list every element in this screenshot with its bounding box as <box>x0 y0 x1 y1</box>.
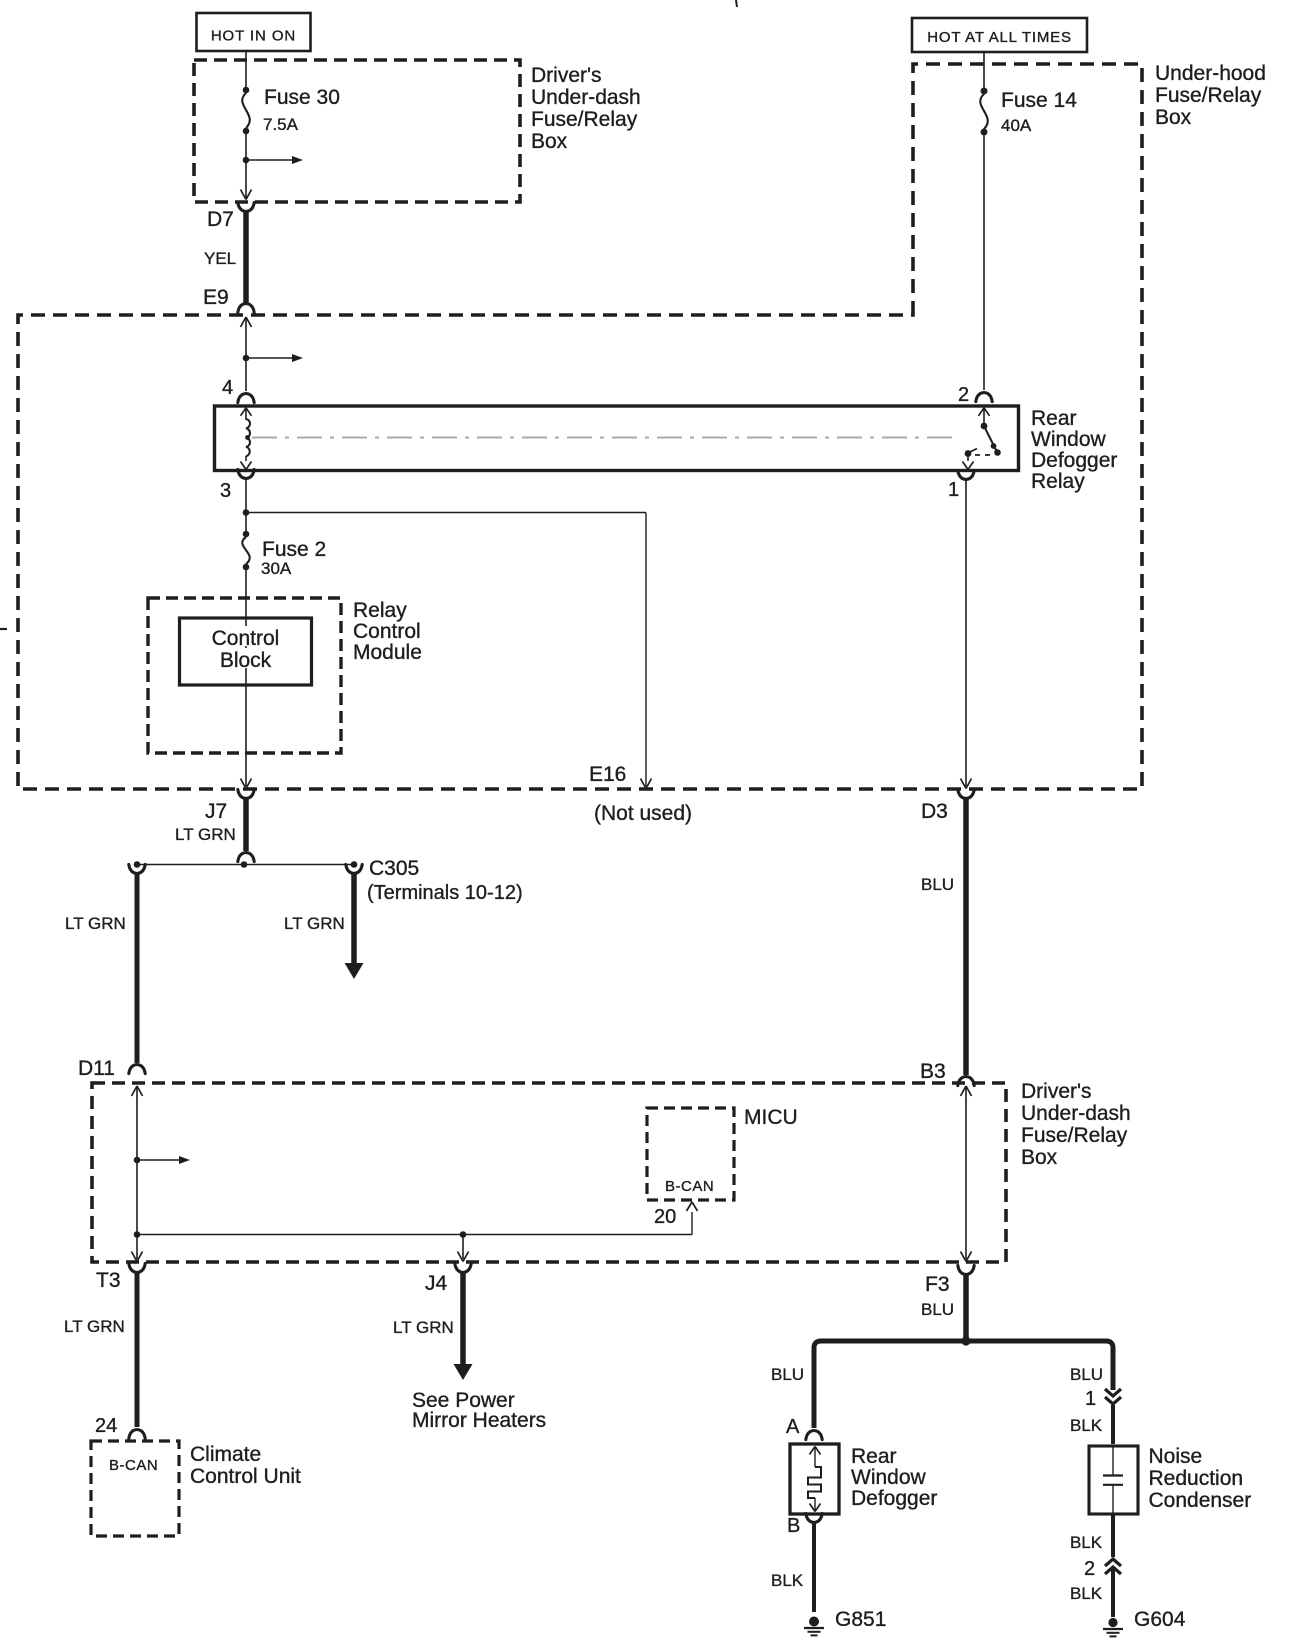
wire to E16 (not used) <box>246 513 646 787</box>
label LT GRN (left branch) <box>65 914 126 933</box>
label C305 <box>369 857 419 880</box>
label (Not used) <box>594 802 692 825</box>
scan tick left <box>0 628 7 630</box>
svg-text:Under-dash: Under-dash <box>531 86 641 109</box>
module box: Climate Control Unit (dashed) <box>91 1441 179 1536</box>
svg-text:HOT IN ON: HOT IN ON <box>211 28 296 45</box>
label Rear Window Defogger Relay <box>1031 407 1117 493</box>
svg-text:1: 1 <box>1085 1388 1096 1410</box>
label See Power Mirror Heaters <box>412 1389 546 1432</box>
label pin 2 <box>958 384 969 406</box>
connector J7 <box>238 789 254 798</box>
label B3 <box>920 1060 946 1083</box>
svg-text:30A: 30A <box>261 559 292 578</box>
svg-text:Defogger: Defogger <box>1031 449 1117 472</box>
node splice right <box>351 861 358 868</box>
relay dash-dot divider <box>245 435 958 440</box>
svg-text:BLK: BLK <box>771 1571 804 1590</box>
svg-text:HOT AT ALL TIMES: HOT AT ALL TIMES <box>927 29 1072 46</box>
label pin 1 (relay) <box>948 479 959 501</box>
label LT GRN (J4) <box>393 1318 454 1337</box>
label F3 <box>925 1273 950 1296</box>
wire E9 to relay pin 4 <box>245 317 247 391</box>
arrow relay pin 4 internal <box>241 408 252 420</box>
node junction at F3 drop <box>961 1336 970 1345</box>
relay switch common contact <box>981 423 988 430</box>
svg-text:YEL: YEL <box>204 249 236 268</box>
svg-text:Mirror Heaters: Mirror Heaters <box>412 1409 546 1432</box>
svg-text:Fuse/Relay: Fuse/Relay <box>1021 1124 1128 1147</box>
svg-text:B-CAN: B-CAN <box>109 1457 158 1474</box>
splice line below J7 <box>137 864 354 866</box>
svg-text:(Not used): (Not used) <box>594 802 692 825</box>
svg-text:LT GRN: LT GRN <box>393 1318 454 1337</box>
svg-text:D3: D3 <box>921 800 948 823</box>
svg-text:40A: 40A <box>1001 116 1032 135</box>
node junction below pin 3 <box>243 509 250 516</box>
label BLK (condenser top) <box>1070 1416 1103 1435</box>
wire D7-E9 YEL <box>243 212 249 303</box>
svg-text:Rear: Rear <box>851 1445 897 1468</box>
svg-text:LT GRN: LT GRN <box>284 914 345 933</box>
label Noise Reduction Condenser <box>1149 1445 1252 1512</box>
arrow into J4 <box>458 1252 469 1262</box>
inline connector pin 1 (condenser) <box>1105 1389 1121 1404</box>
label BLK (to G604) <box>1070 1584 1103 1603</box>
arrow into J7 <box>241 779 252 789</box>
label BLK (defogger) <box>771 1571 804 1590</box>
wire splice to MICU pin 20 <box>137 1212 692 1235</box>
svg-text:Block: Block <box>220 649 272 672</box>
label BLU (F3) <box>921 1300 954 1319</box>
svg-text:Under-dash: Under-dash <box>1021 1102 1131 1125</box>
svg-text:Relay: Relay <box>1031 470 1085 493</box>
svg-text:Condenser: Condenser <box>1149 1489 1252 1512</box>
svg-text:Defogger: Defogger <box>851 1487 937 1510</box>
connector A <box>806 1431 822 1440</box>
svg-text:Fuse 2: Fuse 2 <box>262 538 326 561</box>
label T3 <box>96 1269 121 1292</box>
connector F3 <box>958 1265 974 1274</box>
connector D3 <box>958 789 974 798</box>
svg-text:Fuse/Relay: Fuse/Relay <box>531 108 638 131</box>
fuse F30 <box>242 87 250 135</box>
wire J7 LT GRN <box>243 799 249 851</box>
label Rear Window Defogger <box>851 1445 937 1510</box>
connector B <box>806 1513 822 1522</box>
svg-text:C305: C305 <box>369 857 419 880</box>
arrow C305 continues <box>345 963 364 979</box>
svg-text:B-CAN: B-CAN <box>665 1178 714 1195</box>
wire pin 3 down <box>245 479 247 534</box>
arrow F3 exit <box>961 1252 972 1262</box>
svg-text:BLU: BLU <box>921 1300 954 1319</box>
label pin 24 <box>95 1415 117 1437</box>
label pin 3 <box>220 480 231 502</box>
svg-text:24: 24 <box>95 1415 117 1437</box>
label D11 <box>78 1057 115 1080</box>
svg-text:7.5A: 7.5A <box>263 115 299 134</box>
branch arrow inside lower box <box>134 1156 190 1164</box>
connector pin 24 <box>129 1430 145 1439</box>
svg-text:Driver's: Driver's <box>531 64 602 87</box>
node splice left <box>134 861 141 868</box>
svg-text:Window: Window <box>851 1466 927 1489</box>
wire J4 LT GRN <box>460 1273 466 1367</box>
connector C305 branch <box>346 864 362 873</box>
svg-text:E16: E16 <box>589 763 626 786</box>
svg-text:LT GRN: LT GRN <box>64 1317 125 1336</box>
svg-text:BLU: BLU <box>1070 1365 1103 1384</box>
svg-text:Climate: Climate <box>190 1443 261 1466</box>
ground G604 <box>1103 1618 1123 1637</box>
svg-text:Module: Module <box>353 641 422 664</box>
svg-text:20: 20 <box>654 1206 676 1228</box>
label Fuse 2 30A <box>261 538 326 578</box>
svg-text:D11: D11 <box>78 1057 115 1080</box>
connector B3 <box>958 1077 974 1086</box>
svg-text:J4: J4 <box>425 1272 448 1295</box>
label YEL <box>204 249 236 268</box>
label E16 <box>589 763 626 786</box>
label pin 4 <box>222 377 233 399</box>
svg-text:Reduction: Reduction <box>1149 1467 1244 1490</box>
fuse F2 <box>242 531 250 571</box>
svg-text:Box: Box <box>531 130 568 153</box>
svg-text:Relay: Relay <box>353 599 407 622</box>
connector left branch <box>129 864 145 873</box>
label B-CAN (climate) <box>109 1457 158 1474</box>
relay coil <box>246 419 250 456</box>
svg-text:T3: T3 <box>96 1269 121 1292</box>
label G851 <box>835 1608 886 1631</box>
svg-text:G851: G851 <box>835 1608 886 1631</box>
svg-text:2: 2 <box>958 384 969 406</box>
branch arrow to other circuits (box 1) <box>243 156 303 164</box>
label LT GRN (C305 branch) <box>284 914 345 933</box>
relay switch output contact <box>965 449 977 457</box>
label B-CAN (MICU) <box>665 1178 714 1195</box>
label pin 1 (condenser) <box>1085 1388 1096 1410</box>
component: Rear Window Defogger element box <box>790 1444 839 1514</box>
wire condenser bottom to inline connector <box>1111 1514 1115 1557</box>
block: Control Block <box>180 618 312 685</box>
arrow into E16 <box>641 779 652 789</box>
arrow relay pin 2 internal <box>979 408 990 424</box>
connector E9 <box>238 304 254 313</box>
label BLU (defogger A) <box>771 1365 804 1384</box>
svg-text:Window: Window <box>1031 428 1107 451</box>
svg-text:Box: Box <box>1021 1146 1058 1169</box>
fuse/relay box: Driver's Under-dash Fuse/Relay Box (top) <box>194 60 520 202</box>
inline connector pin 2 (condenser) <box>1105 1559 1121 1574</box>
connector pin 2 <box>976 393 992 402</box>
relay K1: Rear Window Defogger Relay body <box>215 406 1019 471</box>
svg-text:Driver's: Driver's <box>1021 1080 1092 1103</box>
svg-text:BLU: BLU <box>771 1365 804 1384</box>
svg-text:Under-hood: Under-hood <box>1155 62 1266 85</box>
under-hood fuse/relay box outline (dashed polygon) <box>18 64 1142 789</box>
arrow entering box at E9 <box>241 317 252 327</box>
svg-text:BLK: BLK <box>1070 1584 1103 1603</box>
wire D3-B3 BLU <box>963 799 969 1075</box>
svg-text:Rear: Rear <box>1031 407 1077 430</box>
label D7 <box>207 208 234 231</box>
connector D11 <box>129 1065 145 1074</box>
label Relay Control Module <box>353 599 422 664</box>
module box: Relay Control Module (dashed) <box>148 598 341 753</box>
label Driver's Under-dash Fuse/Relay Box (lower) <box>1021 1080 1131 1169</box>
connector T3 <box>129 1263 145 1272</box>
svg-text:Control: Control <box>353 620 421 643</box>
power tag HOT AT ALL TIMES <box>912 18 1087 52</box>
svg-text:Fuse 30: Fuse 30 <box>264 86 340 109</box>
svg-text:Box: Box <box>1155 106 1192 129</box>
arrow T3 exit <box>132 1252 143 1262</box>
wire Fuse 14 to relay pin 2 <box>983 132 985 390</box>
connector J7 lower <box>238 853 254 862</box>
arrow into D7 <box>241 190 252 200</box>
svg-text:LT GRN: LT GRN <box>65 914 126 933</box>
label MICU <box>744 1106 798 1129</box>
svg-text:F3: F3 <box>925 1273 950 1296</box>
svg-text:Control Unit: Control Unit <box>190 1465 301 1488</box>
wire pin 1 to D3 <box>965 480 967 786</box>
label BLK (condenser bottom) <box>1070 1533 1103 1552</box>
svg-text:BLK: BLK <box>1070 1416 1103 1435</box>
relay switch actuator dashes <box>975 454 991 456</box>
svg-text:BLK: BLK <box>1070 1533 1103 1552</box>
wire T3 LT GRN <box>135 1273 140 1427</box>
svg-text:Fuse 14: Fuse 14 <box>1001 89 1077 112</box>
wire below Fuse 30 <box>245 131 247 199</box>
ground G851 <box>804 1617 824 1636</box>
svg-text:B3: B3 <box>920 1060 946 1083</box>
module box MICU B-CAN (dashed) <box>647 1108 734 1200</box>
label LT GRN (J7) <box>175 825 236 844</box>
connector D7 <box>238 202 254 211</box>
fuse/relay box: Driver's Under-dash Fuse/Relay Box (lower) <box>92 1083 1006 1262</box>
svg-text:D7: D7 <box>207 208 234 231</box>
label D3 <box>921 800 948 823</box>
wire condenser top BLK <box>1111 1405 1115 1444</box>
label J7 <box>205 800 227 823</box>
wire from HOT IN ON to Fuse 30 <box>245 51 247 90</box>
svg-text:(Terminals 10-12): (Terminals 10-12) <box>367 882 523 904</box>
label LT GRN (T3) <box>64 1317 125 1336</box>
node splice middle <box>241 861 248 868</box>
connector pin 3 <box>238 469 254 478</box>
svg-text:BLU: BLU <box>921 875 954 894</box>
svg-text:1: 1 <box>948 479 959 501</box>
connector J4 <box>455 1263 471 1272</box>
wire to J4 <box>462 1235 464 1260</box>
svg-text:4: 4 <box>222 377 233 399</box>
arrow into D3 <box>961 779 972 789</box>
wire C305 branch LT GRN <box>351 874 357 965</box>
svg-text:G604: G604 <box>1134 1608 1186 1631</box>
svg-text:E9: E9 <box>203 286 229 309</box>
node junction to J4 <box>460 1231 467 1238</box>
wire B BLK <box>812 1523 816 1612</box>
label terminal A <box>786 1416 800 1438</box>
wire condenser to ground <box>1111 1567 1115 1617</box>
svg-text:MICU: MICU <box>744 1106 798 1129</box>
label BLU (condenser) <box>1070 1365 1103 1384</box>
condenser internals (capacitor) <box>1103 1446 1123 1514</box>
wire defogger feed (horizontal) <box>814 1341 1113 1428</box>
label Fuse 30 7.5A <box>263 86 340 134</box>
defogger element internals <box>808 1447 821 1512</box>
wire Fuse 2 to Control Block <box>245 567 247 786</box>
label pin 2 (condenser) <box>1084 1558 1095 1580</box>
wire left branch LT GRN <box>135 874 140 1063</box>
fuse F14 <box>980 88 988 136</box>
label pin 20 <box>654 1206 676 1228</box>
label Terminals 10-12 <box>367 882 523 904</box>
label G604 <box>1134 1608 1186 1631</box>
svg-text:LT GRN: LT GRN <box>175 825 236 844</box>
label E9 <box>203 286 229 309</box>
relay switch movable arm <box>984 426 1001 456</box>
label Driver's Under-dash Fuse/Relay Box (top) <box>531 64 641 153</box>
node splice (lower box) <box>134 1231 141 1238</box>
svg-text:Control: Control <box>212 627 280 650</box>
branch arrow inside under-hood box <box>243 354 303 362</box>
arrow relay output to pin 1 <box>963 455 974 470</box>
wire F3 BLU <box>963 1275 969 1338</box>
arrow into MICU pin 20 <box>687 1202 698 1211</box>
svg-text:Fuse/Relay: Fuse/Relay <box>1155 84 1262 107</box>
connector pin 4 <box>238 394 254 403</box>
svg-text:2: 2 <box>1084 1558 1095 1580</box>
svg-text:3: 3 <box>220 480 231 502</box>
scan tick top <box>736 0 737 7</box>
svg-text:B: B <box>787 1515 800 1537</box>
label BLU (D3-B3) <box>921 875 954 894</box>
arrow D11 into box <box>132 1086 143 1096</box>
wire from HOT AT ALL TIMES to Fuse 14 <box>983 52 985 90</box>
label Climate Control Unit <box>190 1443 301 1488</box>
svg-text:A: A <box>786 1416 800 1438</box>
wire D11 through box <box>136 1086 138 1259</box>
label Fuse 14 40A <box>1001 89 1077 135</box>
arrow B3 into box <box>961 1086 972 1096</box>
wire B3 to F3 through box <box>965 1086 967 1259</box>
arrow see power mirror heaters <box>454 1364 473 1380</box>
component: Noise Reduction Condenser box <box>1089 1446 1138 1514</box>
label Under-hood Fuse/Relay Box <box>1155 62 1266 129</box>
power tag HOT IN ON <box>197 13 311 51</box>
svg-text:Noise: Noise <box>1149 1445 1203 1468</box>
label terminal B <box>787 1515 800 1537</box>
label J4 <box>425 1272 448 1295</box>
svg-text:J7: J7 <box>205 800 227 823</box>
connector pin 1 <box>958 470 974 479</box>
arrow relay coil to pin 3 <box>241 456 252 470</box>
